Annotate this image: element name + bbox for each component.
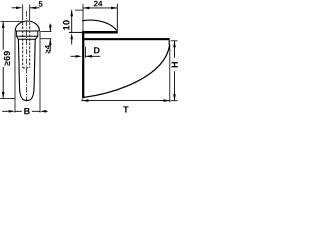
label 10 <box>63 20 70 30</box>
label B <box>24 108 29 114</box>
dim H arrow down <box>173 94 176 100</box>
dim 24 arrow left <box>83 7 89 10</box>
dim T right ext <box>169 45 171 102</box>
dim H arrow up <box>173 41 176 47</box>
dim B arrow left outside <box>9 110 15 113</box>
dim B ext right <box>39 32 41 113</box>
dim 5 arrow left <box>16 7 22 10</box>
dim >=69 bottom ext line <box>0 97 15 99</box>
dim H line <box>174 41 176 101</box>
back bar <box>82 31 84 98</box>
label >=4 <box>45 45 50 53</box>
hidden pin line left <box>22 23 24 68</box>
label >=69 <box>4 51 10 65</box>
dim 5 line left <box>12 7 18 9</box>
centerline <box>25 11 27 102</box>
dim >=4 line upper <box>49 24 51 32</box>
dim 10 line <box>71 10 73 32</box>
dim T arrow left <box>82 99 88 102</box>
dim B line <box>15 110 40 112</box>
dim >=4 arrow up <box>49 39 52 45</box>
pin ext line left <box>22 5 24 21</box>
dim >=4 top ext line <box>40 31 51 33</box>
dim >=69 line <box>2 22 4 99</box>
dim 24 line <box>83 7 117 9</box>
shaft with rounded tip <box>18 39 35 100</box>
arm plate <box>84 38 170 40</box>
label 5 <box>39 1 43 7</box>
dim >=69 top ext line <box>1 21 25 23</box>
dim 10 arrow up at bottom (outside) <box>70 33 73 39</box>
collar lower <box>17 36 38 39</box>
dim >=4 line lower <box>49 39 51 52</box>
dim B ext left <box>14 32 16 113</box>
underside curve <box>83 45 170 98</box>
collar upper <box>16 31 37 36</box>
dim D arrow right <box>86 55 92 58</box>
dim D right ext <box>85 47 87 58</box>
label 24 <box>94 1 102 7</box>
dim H top ext <box>171 40 178 42</box>
dim 10 bottom ext <box>69 31 82 33</box>
wedge top curve <box>82 20 117 31</box>
top jaw plate <box>84 31 117 34</box>
dim >=4 arrow down <box>49 25 52 31</box>
dim 24 ext left <box>82 4 84 31</box>
dim D arrow left <box>76 55 82 58</box>
dim 10 bottom tail <box>71 38 73 45</box>
dim T line <box>82 100 170 102</box>
hidden pin bottom <box>23 67 30 69</box>
dim H bottom ext <box>171 100 178 102</box>
dim 10 top ext <box>75 9 84 11</box>
dim >=69 arrow up <box>2 22 5 28</box>
label H <box>172 62 178 67</box>
label D <box>94 47 100 53</box>
dim >=4 bottom ext line <box>40 38 51 40</box>
dim 24 arrow right <box>111 7 117 10</box>
dim T arrow right <box>164 99 170 102</box>
label T <box>123 106 128 112</box>
dim 5 arrow right <box>30 7 36 10</box>
hidden pin line right <box>29 23 31 68</box>
front face <box>168 40 170 45</box>
dim 10 arrow up (inside) <box>70 10 73 16</box>
dim T left ext <box>81 99 83 102</box>
dim 5 line right <box>30 7 40 9</box>
dim D right tail <box>86 55 101 57</box>
dim D left tail <box>71 55 77 57</box>
pin ext line right <box>29 5 31 21</box>
dim >=69 arrow down <box>2 92 5 98</box>
dim B arrow right outside <box>40 110 46 113</box>
cap dome <box>15 21 39 31</box>
cap base line <box>15 30 39 32</box>
dim 24 ext right / wedge right face <box>116 4 118 34</box>
